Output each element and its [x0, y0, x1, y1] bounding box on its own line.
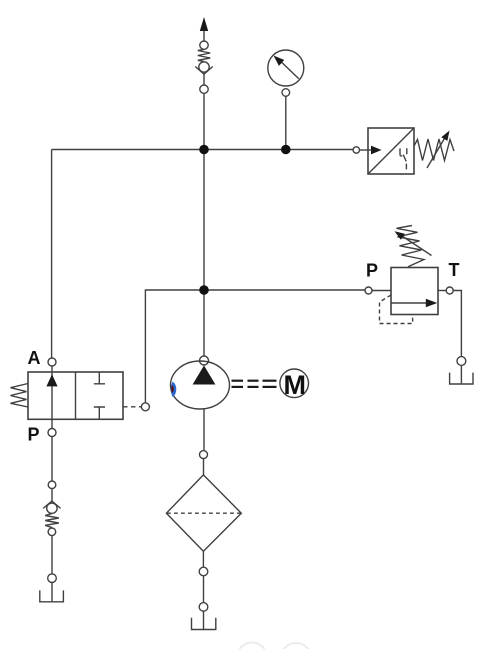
flow path line [51, 366, 53, 429]
port circle [200, 451, 208, 459]
valve body [28, 372, 123, 419]
valve body [391, 268, 438, 315]
svg-text:P: P [366, 261, 378, 281]
port circle [48, 528, 56, 536]
svg-text:A: A [28, 348, 41, 368]
wire main horizontal line [52, 149, 353, 151]
port circle [199, 567, 208, 576]
return spring [11, 384, 29, 408]
pilot port circle [141, 403, 149, 411]
svg-text:T: T [449, 260, 460, 280]
pump body [171, 361, 230, 409]
tank T1 [450, 373, 473, 384]
wire gauge to node [285, 96, 287, 149]
svg-text:P: P [28, 424, 40, 444]
motor M1 [280, 369, 309, 400]
directional valve 2/2 DV [11, 348, 150, 444]
port circle [48, 481, 56, 489]
faint arcs bottom [237, 643, 311, 649]
spring arrow [427, 135, 447, 168]
switch contact glyph [400, 148, 407, 169]
arrow to atmosphere [200, 17, 208, 31]
port circle [353, 147, 359, 153]
gauge needle [278, 59, 299, 79]
wire T down [453, 291, 461, 357]
wire [203, 459, 205, 475]
port circle [48, 574, 57, 583]
arrow into box [371, 146, 382, 155]
check valve V1 (vent, top) [195, 17, 212, 150]
filter diamond [166, 475, 241, 551]
gauge port circle [282, 89, 290, 97]
check valve V2 (bottom left) [40, 437, 64, 602]
blocked port bottom [94, 407, 105, 419]
spring [45, 513, 59, 527]
pilot dashed stub [123, 406, 141, 408]
wire pilot line junction2 to valve pilot [145, 290, 204, 403]
port circle [200, 41, 208, 49]
port P circle [365, 287, 372, 294]
wire body to T port [438, 290, 446, 292]
artifact blue mark [171, 382, 177, 398]
port circle [200, 85, 208, 93]
seat [195, 67, 212, 75]
tank T2 [192, 618, 216, 630]
port P circle [48, 429, 56, 437]
switch box [368, 128, 414, 174]
pressure switch PS [353, 128, 454, 174]
node junction 1 [199, 145, 209, 155]
tank T3 [40, 590, 64, 601]
wire into switch [360, 149, 373, 151]
wire [203, 74, 205, 85]
relief valve RV [365, 226, 473, 385]
spring arrow [399, 234, 432, 256]
adjustable spring on top [397, 226, 425, 267]
node junction 2 [199, 285, 209, 295]
wire into tank [203, 611, 205, 629]
port T circle [446, 287, 453, 294]
wire main vertical line junction1 to junction2 [203, 150, 205, 291]
flow path arrow [46, 374, 57, 386]
filter element dashed [167, 512, 241, 514]
wire junction2 to relief valve P [204, 289, 365, 291]
svg-text:M: M [284, 370, 307, 400]
pressure gauge PG [268, 50, 304, 154]
wire pump to filter [203, 409, 205, 451]
wire to tank [460, 365, 462, 383]
spring [198, 49, 210, 61]
wire [202, 551, 204, 567]
blocked port top [94, 372, 105, 384]
node gauge junction [281, 145, 291, 155]
pilot dashed line [380, 295, 413, 324]
pump P1 [171, 356, 230, 451]
pump port circle [200, 356, 209, 365]
box diagonal [368, 128, 414, 174]
wire [203, 576, 205, 603]
flow path arrow [391, 302, 428, 304]
wire [203, 93, 205, 149]
wire left vertical line to valve A port [51, 150, 53, 359]
position divider [75, 372, 77, 419]
adjustable spring [414, 139, 454, 161]
wire [51, 489, 53, 502]
wire valve P to check valve [51, 437, 53, 482]
pump flow triangle [193, 366, 216, 385]
shaft coupling [232, 381, 277, 387]
filter F1 [166, 451, 241, 630]
wire into tank [51, 583, 53, 602]
ball [47, 503, 57, 513]
seat [43, 501, 60, 508]
wire vent arrow stem [203, 22, 205, 41]
port circle [457, 357, 466, 366]
wire [51, 536, 53, 574]
port A circle [48, 358, 56, 366]
port circle [199, 603, 208, 612]
wire P to body [372, 290, 391, 292]
wire main vertical line junction2 to pump [203, 290, 205, 356]
ball [199, 62, 209, 72]
